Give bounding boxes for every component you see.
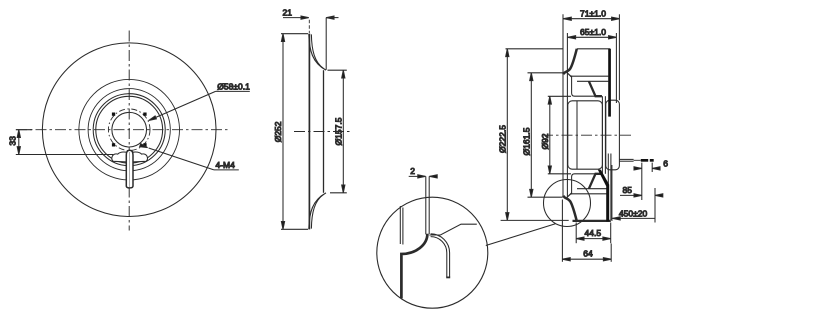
svg-text:Ø92: Ø92 [540, 133, 550, 149]
svg-text:Ø58±0.1: Ø58±0.1 [217, 82, 250, 92]
svg-text:71±1.0: 71±1.0 [580, 8, 606, 18]
svg-text:4-M4: 4-M4 [216, 160, 236, 170]
svg-text:Ø252: Ø252 [273, 121, 283, 142]
svg-text:33: 33 [7, 136, 17, 146]
svg-text:64: 64 [583, 249, 593, 259]
svg-text:2: 2 [410, 166, 415, 176]
svg-text:21: 21 [283, 7, 293, 17]
svg-text:Ø161.5: Ø161.5 [521, 127, 531, 155]
svg-text:85: 85 [623, 185, 633, 195]
svg-text:6: 6 [663, 158, 668, 168]
svg-text:450±20: 450±20 [619, 208, 648, 218]
svg-text:Ø222.5: Ø222.5 [497, 125, 507, 153]
svg-text:65±1.0: 65±1.0 [580, 27, 606, 37]
svg-text:44.5: 44.5 [585, 228, 602, 238]
svg-text:Ø157.5: Ø157.5 [333, 117, 343, 145]
